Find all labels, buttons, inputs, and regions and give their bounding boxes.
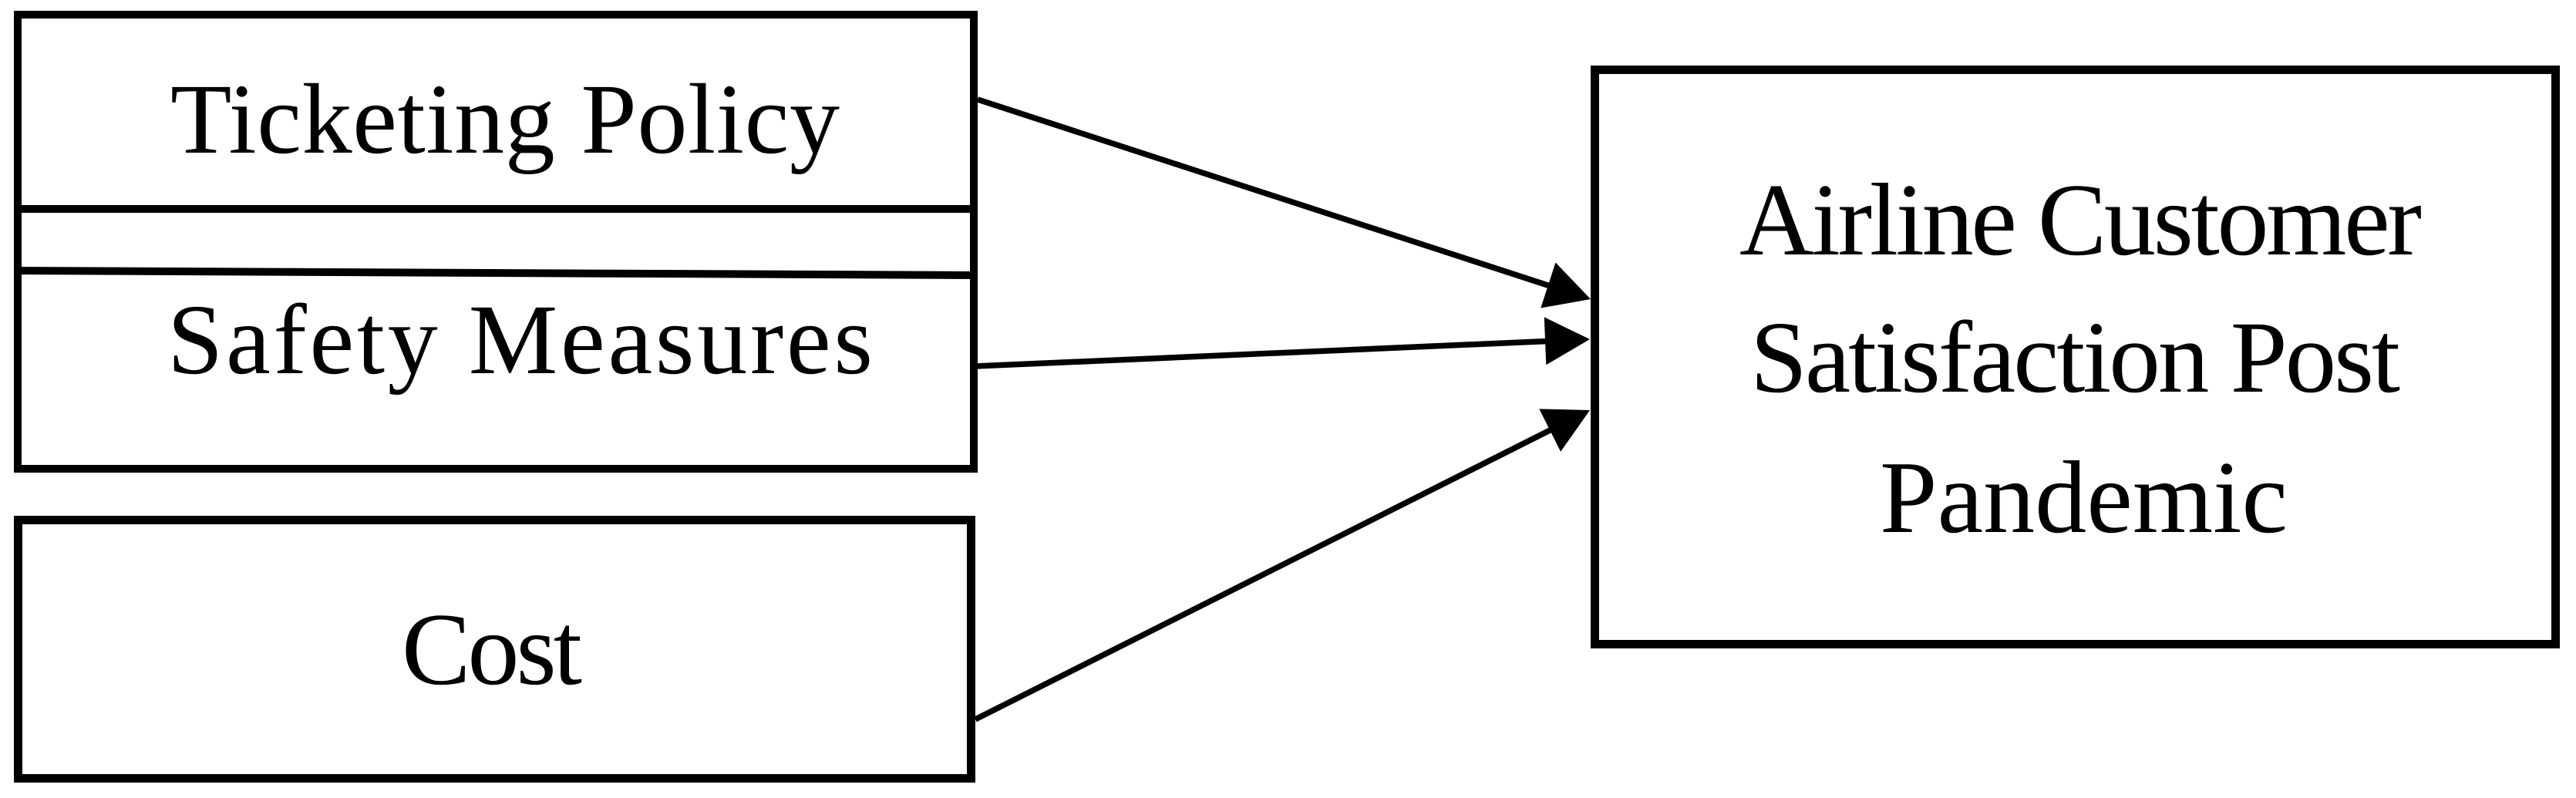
svg-text:Airline Customer: Airline Customer <box>1739 163 2422 277</box>
divider line: bottom border of Ticketing Policy box <box>14 205 978 213</box>
label: Satisfaction Post <box>1750 300 2400 414</box>
label: Pandemic <box>1880 440 2288 554</box>
box: Ticketing Policy / Safety Measures compound outer rectangle <box>18 15 974 469</box>
arrow head: Ticketing Policy arrow <box>1541 263 1591 308</box>
label: Cost <box>402 592 582 706</box>
arrow head: Safety Measures arrow <box>1544 317 1590 365</box>
box: Airline Customer Satisfaction Post Pandemic <box>1595 70 2556 645</box>
svg-text:Safety Measures: Safety Measures <box>167 285 873 396</box>
svg-text:Satisfaction Post: Satisfaction Post <box>1750 300 2400 414</box>
arrow: Safety Measures to Airline Customer Satisfaction (line) <box>975 341 1565 367</box>
arrow: Cost to Airline Customer Satisfaction (line) <box>975 421 1569 719</box>
label: Ticketing Policy <box>170 64 840 175</box>
label: Safety Measures <box>167 285 873 396</box>
arrow: Ticketing Policy to Airline Customer Satisfaction (line) <box>978 99 1569 292</box>
arrow head: Cost arrow <box>1539 409 1590 451</box>
svg-text:Ticketing Policy: Ticketing Policy <box>170 64 840 175</box>
label: Airline Customer <box>1739 163 2422 277</box>
divider line: top border of Safety Measures box <box>14 271 978 275</box>
box: Cost <box>19 520 971 779</box>
svg-text:Pandemic: Pandemic <box>1880 440 2288 554</box>
svg-text:Cost: Cost <box>402 592 582 706</box>
